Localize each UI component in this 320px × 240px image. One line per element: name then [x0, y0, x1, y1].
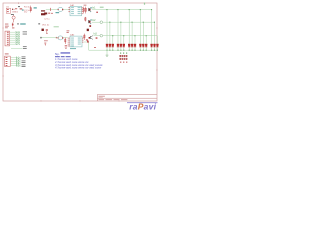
wire from U2 to bus4 [84, 42, 89, 50]
JP1 net labels [16, 31, 21, 46]
label Q3 [96, 37, 98, 38]
svg-text:4.Xaxwe awd xaxa wexa xw awd x: 4.Xaxwe awd xaxa wexa xw awd xaxw [55, 66, 102, 70]
op-amp U2 [70, 36, 82, 47]
capacitor C2 [44, 13, 47, 15]
transistor Q1 [88, 7, 92, 12]
pin stubs U1 right [82, 8, 83, 15]
net label POWER [22, 10, 24, 11]
grid verticals set C [113, 36, 158, 51]
junction dots bus3 [112, 35, 147, 36]
svg-text:Np.: Np. [55, 52, 60, 56]
resistor R7 [84, 34, 85, 40]
JP2 net labels [16, 56, 21, 67]
label R7 [86, 39, 88, 40]
label JP2 [5, 53, 9, 54]
wire [63, 9, 70, 11]
svg-text:raPavi: raPavi [129, 101, 156, 111]
junction Q3 emitter [87, 41, 89, 43]
wire bus2 [103, 21, 155, 23]
connector JP1 [5, 31, 10, 46]
resistor R4 [85, 7, 86, 14]
label dark [17, 23, 19, 24]
junction Q2 emitter [89, 25, 91, 27]
dark square above Q3 [87, 29, 89, 31]
JP1 wires [10, 32, 15, 44]
connector JP2 [5, 56, 11, 66]
pin stubs U1 left [68, 8, 70, 13]
resistor network block [120, 52, 128, 62]
wire row2 [92, 21, 100, 23]
resistor R2 [50, 8, 52, 11]
capacitor C1 body [41, 13, 45, 15]
svg-text:VD1 4x: VD1 4x [42, 25, 50, 27]
label red [12, 27, 14, 28]
wire with label [11, 46, 27, 49]
battery BT1 [12, 15, 15, 22]
junction dots bus1 [106, 9, 152, 10]
port labels right of JP2 [22, 56, 26, 67]
svg-text:C2 1u: C2 1u [44, 18, 50, 20]
pin stubs U2 right [82, 38, 84, 43]
switch S1 [20, 8, 23, 9]
title row2 text [99, 98, 128, 101]
net label [56, 12, 60, 13]
svg-text:R1 1k: R1 1k [24, 6, 31, 8]
JP2 wires [11, 58, 17, 66]
wire bus4 [89, 49, 158, 51]
title block [98, 94, 157, 101]
diode VD2 [12, 23, 14, 27]
transistor Q2 [88, 20, 92, 25]
pin mark [40, 37, 41, 39]
label R4 [84, 4, 87, 7]
wire [63, 37, 67, 39]
tick above bus4 [94, 47, 95, 48]
capacitor C4 [44, 43, 46, 46]
label S1 [18, 6, 20, 7]
label [48, 13, 53, 14]
junction dots bus2 [109, 22, 155, 23]
diode bridge dark square [42, 29, 44, 31]
net label green [54, 26, 59, 27]
notes line1 [55, 52, 70, 56]
label above U2 [67, 30, 76, 36]
net stub top border [144, 3, 145, 5]
label GND2 [44, 39, 48, 42]
connector X1 [6, 7, 11, 14]
watermark underline [127, 102, 158, 104]
wire bus3 [103, 35, 158, 37]
junction dots bus4 [106, 50, 158, 51]
title text [99, 95, 105, 98]
microphone MK1 [58, 7, 64, 11]
resistor R1 [30, 6, 31, 13]
label BT1 [11, 13, 14, 16]
resistor R5 [85, 17, 86, 22]
wire [12, 9, 14, 10]
node circle row3 [100, 34, 103, 37]
LED row [106, 44, 159, 47]
net label VCC [34, 7, 37, 8]
resistor R3 [83, 7, 84, 14]
node circle row2 [100, 21, 103, 24]
transistor Q3 [89, 36, 93, 40]
ground stub [106, 50, 109, 56]
net label above bus1 [100, 7, 104, 8]
wire bus1 [92, 9, 152, 11]
sheet border [2, 2, 158, 102]
wire [46, 9, 58, 11]
resistor R6 [65, 38, 66, 44]
capacitor C1 plate [41, 10, 45, 11]
capacitor C5 [65, 45, 67, 49]
notes line2 [55, 56, 71, 57]
label JP1 [5, 24, 9, 29]
pin stubs U2 left [68, 38, 70, 46]
fuse F1 [15, 7, 17, 10]
svg-text:GND1: GND1 [12, 11, 19, 13]
tick [55, 37, 58, 39]
net label teal [20, 23, 26, 24]
capacitor C3 [46, 29, 48, 34]
label under U2 [70, 48, 76, 49]
grid verticals set B [110, 22, 155, 50]
junction [96, 12, 97, 13]
grid verticals set A [107, 10, 152, 51]
label [38, 23, 40, 24]
port labels right of JP1 [23, 31, 27, 34]
wire middle channel [42, 37, 58, 39]
microphone MK2 [58, 36, 64, 40]
wire row3 [94, 35, 100, 37]
op-amp U1 [70, 6, 82, 16]
